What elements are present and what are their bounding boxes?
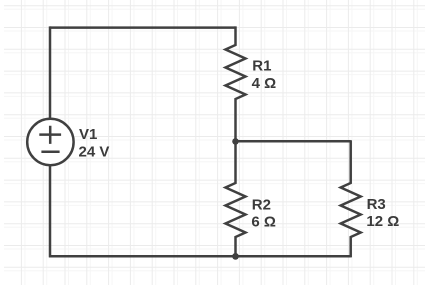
svg-text:R3: R3 [367,196,386,213]
plus symbol [39,126,61,144]
wire left vertical upper [49,26,52,119]
svg-text:12 Ω: 12 Ω [366,213,399,230]
svg-text:R1: R1 [252,58,271,75]
wire bottom horizontal [49,255,351,258]
minus symbol [41,150,59,153]
node A junction dot [232,138,239,145]
svg-text:24 V: 24 V [79,143,110,160]
svg-text:4 Ω: 4 Ω [252,75,277,92]
svg-text:R2: R2 [252,196,271,213]
resistor R2 [226,141,246,256]
resistor R3 [341,140,361,257]
wire top horizontal [50,26,236,29]
node B junction dot [232,253,239,260]
wire left vertical lower [49,165,52,258]
svg-text:6 Ω: 6 Ω [251,214,276,231]
wire middle horizontal node A to R3 [236,140,351,143]
voltage source V1 circle [27,119,73,165]
resistor R1 [226,26,246,141]
svg-text:V1: V1 [79,126,97,143]
